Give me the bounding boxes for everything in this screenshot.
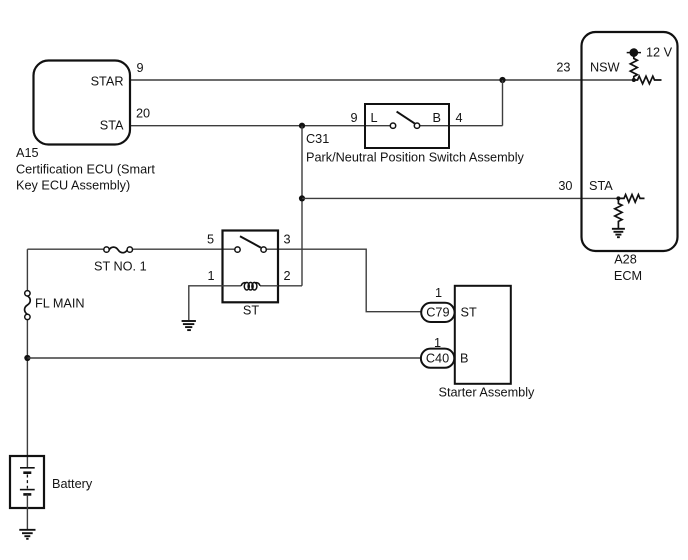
ground relay <box>182 321 196 330</box>
switch blade <box>397 112 415 124</box>
ground battery <box>19 530 35 539</box>
svg-text:2: 2 <box>284 269 291 283</box>
node NSW junction <box>632 78 636 82</box>
node C31 junction <box>299 123 305 129</box>
svg-text:4: 4 <box>456 111 463 125</box>
svg-text:30: 30 <box>558 179 572 193</box>
svg-text:Battery: Battery <box>52 477 93 491</box>
svg-text:STA: STA <box>100 119 124 133</box>
wire relay pin1 to ground <box>189 286 223 321</box>
wire junction to ECM STA pin30 <box>302 197 618 199</box>
svg-text:L: L <box>371 111 378 125</box>
wire STA pin20 to switch contact L <box>131 125 391 127</box>
connector C40 <box>421 349 454 368</box>
svg-text:B: B <box>460 352 468 366</box>
connector C79 <box>421 303 454 322</box>
svg-text:Certification ECU (Smart: Certification ECU (Smart <box>16 163 155 177</box>
node 12 V supply dot <box>627 52 641 54</box>
relay coil L1 <box>241 282 260 290</box>
resistor R-STA vertical to ground <box>615 198 622 228</box>
ground ECM STA <box>612 229 625 237</box>
wire vertical C31 junction down to relay pin2 row <box>301 126 303 286</box>
op ECM A28 box <box>582 32 678 251</box>
wire to starter C40 <box>27 357 421 359</box>
wire STAR pin9 to ECM NSW <box>131 79 634 81</box>
wire battery to ground <box>26 494 28 529</box>
svg-text:STAR: STAR <box>91 75 124 89</box>
resistor R-NSW vertical <box>630 53 637 80</box>
svg-text:ECM: ECM <box>614 269 642 283</box>
svg-text:ST: ST <box>243 304 259 318</box>
wire vertical from junction down to switch pin4 wire <box>502 80 504 126</box>
wire fuse to relay contact <box>132 248 234 250</box>
svg-text:ST NO. 1: ST NO. 1 <box>94 260 147 274</box>
switch C31 Park/Neutral box <box>365 104 449 148</box>
svg-text:12 V: 12 V <box>646 46 673 60</box>
svg-text:1: 1 <box>207 269 214 283</box>
relay ST box <box>223 231 279 303</box>
wire switch contact B to box edge <box>420 125 449 127</box>
wire relay coil row right <box>260 285 278 287</box>
svg-text:STA: STA <box>589 179 613 193</box>
relay blade <box>240 236 261 247</box>
svg-text:23: 23 <box>556 61 570 75</box>
resistor R-NSW horizontal <box>634 76 662 84</box>
wire relay coil row left <box>223 285 242 287</box>
wire left riser below FL MAIN to battery <box>26 320 28 468</box>
svg-text:1: 1 <box>435 286 442 300</box>
svg-text:FL MAIN: FL MAIN <box>35 297 85 311</box>
node STA junction <box>616 196 620 200</box>
svg-text:1: 1 <box>434 336 441 350</box>
node junction riser to C40 <box>24 355 30 361</box>
svg-text:Key ECU Assembly): Key ECU Assembly) <box>16 179 130 193</box>
svg-text:Starter Assembly: Starter Assembly <box>439 386 536 400</box>
wire relay contact to elbow down to C79 <box>266 249 421 312</box>
fuse ST NO. 1 <box>104 247 133 253</box>
node junction to ECM STA <box>299 195 305 201</box>
battery cell plates <box>20 468 35 495</box>
svg-text:C31: C31 <box>306 132 329 146</box>
svg-text:A15: A15 <box>16 146 39 160</box>
switch contacts <box>390 123 395 128</box>
wire relay pin2 stub <box>278 285 302 287</box>
svg-text:C40: C40 <box>426 352 449 366</box>
wire left riser top segment <box>26 249 28 291</box>
svg-text:9: 9 <box>137 61 144 75</box>
fuse FL MAIN <box>25 291 31 320</box>
svg-text:A28: A28 <box>614 253 637 267</box>
op ECU A15 box <box>34 61 131 145</box>
wire battery riser / ST NO.1 feed <box>27 248 103 250</box>
svg-text:5: 5 <box>207 232 214 246</box>
battery box <box>10 456 44 508</box>
relay contacts <box>235 247 240 252</box>
resistor R-STA horizontal <box>618 195 644 203</box>
svg-text:20: 20 <box>136 107 150 121</box>
svg-text:NSW: NSW <box>590 61 620 75</box>
svg-text:ST: ST <box>461 306 477 320</box>
svg-text:C79: C79 <box>426 306 449 320</box>
wire switch pin4 to vertical <box>449 125 503 127</box>
starter assembly box <box>455 286 511 384</box>
svg-text:3: 3 <box>284 232 291 246</box>
node junction STAR/NSW wire to switch B <box>499 77 505 83</box>
svg-text:Park/Neutral Position Switch A: Park/Neutral Position Switch Assembly <box>306 151 525 165</box>
svg-text:B: B <box>433 111 441 125</box>
svg-text:9: 9 <box>350 111 357 125</box>
